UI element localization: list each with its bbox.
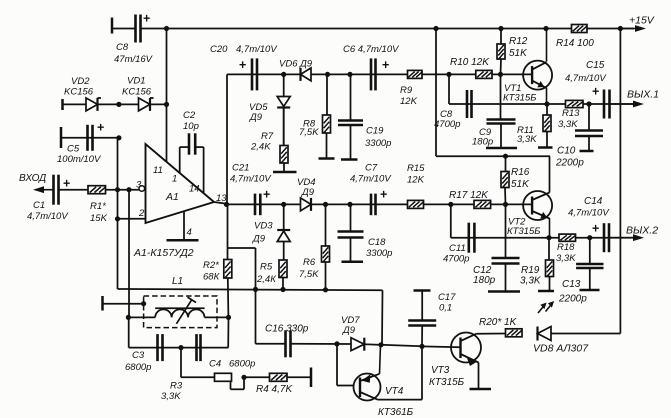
svg-text:6800p: 6800p: [229, 359, 255, 370]
svg-text:R18: R18: [557, 242, 575, 253]
svg-text:+: +: [239, 58, 246, 72]
svg-text:4700p: 4700p: [434, 119, 460, 130]
svg-text:VD8 АЛ307: VD8 АЛ307: [533, 343, 589, 355]
svg-text:R4 4,7K: R4 4,7K: [256, 384, 293, 395]
svg-text:4,7m/10V: 4,7m/10V: [236, 44, 278, 55]
svg-text:VT3: VT3: [431, 365, 450, 376]
svg-text:A1-К157УД2: A1-К157УД2: [133, 247, 194, 259]
svg-text:Д9: Д9: [301, 187, 315, 198]
svg-text:C13: C13: [562, 279, 581, 290]
svg-text:R20* 1K: R20* 1K: [479, 317, 518, 328]
svg-text:C20: C20: [210, 44, 228, 55]
svg-text:R17 12K: R17 12K: [449, 190, 489, 201]
svg-text:180p: 180p: [473, 275, 496, 286]
svg-text:2,4K: 2,4K: [250, 142, 271, 153]
svg-text:C1: C1: [33, 200, 45, 211]
svg-text:R15: R15: [407, 163, 425, 174]
svg-text:3,3K: 3,3K: [558, 119, 578, 130]
svg-text:+: +: [380, 188, 387, 202]
svg-text:КТ315Б: КТ315Б: [429, 377, 465, 388]
svg-text:6800p: 6800p: [125, 362, 151, 373]
svg-text:ВЫХ.1: ВЫХ.1: [627, 89, 659, 101]
svg-text:ВХОД: ВХОД: [19, 173, 46, 184]
svg-text:3,3K: 3,3K: [520, 276, 542, 287]
svg-text:Д9: Д9: [252, 234, 266, 245]
svg-text:15K: 15K: [90, 213, 108, 224]
svg-text:4: 4: [187, 227, 192, 238]
svg-text:C4: C4: [209, 359, 221, 370]
svg-text:+: +: [592, 222, 599, 236]
svg-text:C21: C21: [232, 163, 249, 174]
svg-text:+: +: [592, 85, 599, 99]
svg-text:C7: C7: [365, 163, 378, 174]
svg-text:VD6 Д9: VD6 Д9: [279, 59, 313, 70]
svg-text:4700p: 4700p: [443, 254, 469, 265]
svg-text:14: 14: [189, 184, 200, 195]
svg-text:Д9: Д9: [342, 325, 356, 336]
svg-text:1: 1: [172, 174, 177, 185]
svg-text:3,3K: 3,3K: [161, 391, 181, 402]
svg-text:C5: C5: [67, 144, 80, 155]
svg-text:VD1: VD1: [127, 76, 145, 87]
svg-text:КТ361Б: КТ361Б: [378, 407, 414, 418]
svg-text:7,5K: 7,5K: [299, 127, 319, 138]
svg-text:51K: 51K: [511, 179, 530, 190]
svg-text:R13: R13: [562, 108, 580, 119]
svg-text:2200p: 2200p: [555, 158, 584, 169]
svg-text:VD3: VD3: [254, 221, 273, 232]
svg-text:R9: R9: [400, 85, 413, 96]
svg-text:4,7m/10V: 4,7m/10V: [565, 73, 607, 84]
svg-text:VT4: VT4: [385, 386, 404, 397]
svg-text:+: +: [97, 121, 104, 135]
svg-text:3,3K: 3,3K: [556, 253, 576, 264]
svg-text:+: +: [382, 58, 389, 72]
svg-text:11: 11: [153, 165, 163, 176]
svg-text:R19: R19: [521, 265, 540, 276]
svg-text:C18: C18: [368, 237, 386, 248]
svg-text:100m/10V: 100m/10V: [57, 154, 102, 165]
svg-text:+: +: [143, 12, 150, 26]
svg-text:КТ315Б: КТ315Б: [503, 93, 536, 104]
svg-text:3: 3: [136, 180, 142, 191]
svg-text:C3: C3: [132, 350, 145, 361]
svg-text:51K: 51K: [509, 48, 528, 59]
svg-text:VD2: VD2: [71, 76, 90, 87]
svg-text:C8: C8: [116, 42, 129, 53]
svg-text:L1: L1: [172, 276, 183, 287]
svg-text:2: 2: [138, 208, 145, 219]
svg-text:68К: 68К: [203, 272, 221, 283]
svg-text:ВЫХ.2: ВЫХ.2: [626, 225, 658, 237]
svg-text:КТ315Б: КТ315Б: [507, 226, 540, 237]
svg-text:R7: R7: [261, 131, 274, 142]
svg-text:C15: C15: [586, 60, 605, 71]
svg-text:3,3K: 3,3K: [517, 134, 537, 145]
svg-text:4,7m/10V: 4,7m/10V: [350, 174, 392, 185]
svg-text:R12: R12: [509, 36, 528, 47]
svg-text:A1: A1: [165, 191, 179, 203]
svg-text:R3: R3: [170, 381, 183, 392]
svg-text:12K: 12K: [407, 175, 425, 186]
svg-text:180p: 180p: [472, 137, 493, 148]
svg-text:4,7m/10V: 4,7m/10V: [27, 211, 69, 222]
svg-text:10p: 10p: [183, 121, 199, 132]
svg-text:KC156: KC156: [64, 87, 94, 98]
svg-text:+: +: [263, 188, 270, 202]
svg-text:R16: R16: [511, 167, 530, 178]
svg-text:Д9: Д9: [249, 112, 263, 123]
svg-text:12K: 12K: [400, 96, 418, 107]
svg-text:3300p: 3300p: [365, 138, 391, 149]
svg-text:R5: R5: [260, 262, 273, 273]
svg-text:R14 100: R14 100: [556, 38, 594, 49]
svg-text:R2*: R2*: [203, 260, 219, 271]
svg-text:+: +: [63, 177, 70, 191]
svg-text:0,1: 0,1: [439, 303, 452, 314]
svg-text:C6 4,7m/10V: C6 4,7m/10V: [343, 44, 400, 55]
svg-text:C19: C19: [366, 126, 384, 137]
svg-text:C2: C2: [183, 110, 196, 121]
svg-text:+15V: +15V: [629, 15, 655, 27]
svg-text:2200p: 2200p: [558, 294, 587, 305]
svg-text:C10: C10: [557, 146, 576, 157]
svg-text:3300p: 3300p: [366, 248, 392, 259]
svg-text:C14: C14: [584, 196, 603, 207]
svg-text:47m/16V: 47m/16V: [114, 54, 154, 65]
svg-text:4,7m/10V: 4,7m/10V: [568, 208, 610, 219]
svg-text:R1*: R1*: [90, 201, 106, 212]
svg-text:C16 330p: C16 330p: [265, 324, 309, 335]
svg-text:2,4К: 2,4К: [256, 274, 277, 285]
svg-text:C17: C17: [438, 292, 456, 303]
svg-text:R10 12K: R10 12K: [450, 57, 490, 68]
svg-text:KC156: KC156: [122, 87, 152, 98]
svg-text:7,5K: 7,5K: [299, 269, 319, 280]
svg-text:C11: C11: [449, 243, 466, 254]
svg-text:4,7m/10V: 4,7m/10V: [230, 174, 272, 185]
svg-text:R6: R6: [303, 257, 316, 268]
